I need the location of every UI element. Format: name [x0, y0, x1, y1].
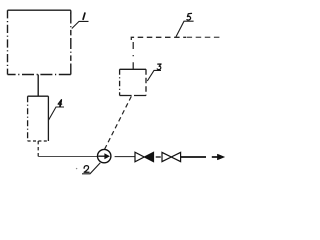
vessel 4 bottom edge	[28, 140, 49, 142]
speckle artifact	[76, 168, 77, 169]
wire: tank 1 to vessel 4	[37, 75, 39, 97]
dashed control line: box 3 to pump 2	[105, 96, 132, 149]
suction line to pump 2	[38, 156, 97, 158]
tank 1 top edge	[8, 9, 71, 11]
valve V2 (open)	[162, 152, 181, 161]
label 3 leader	[147, 64, 161, 81]
pump 2 (circle with arrow)	[98, 149, 111, 162]
signal line 5 faded right part	[187, 36, 221, 38]
tank 1 right edge	[70, 10, 72, 74]
controller 3 (small dash-dot square)	[120, 69, 146, 95]
outlet flow arrow	[212, 154, 225, 160]
outlet line	[181, 156, 206, 158]
tank 1 top-right corner	[69, 10, 72, 14]
dash-dot wire: controller 3 up to signal line 5	[132, 37, 134, 69]
controller 3 top edge	[120, 68, 146, 70]
vessel 4 (small rectangle)	[28, 96, 49, 141]
tank/enclosure 1 (large dash-dot rectangle)	[8, 10, 71, 74]
signal line 5 (dashed horizontal)	[131, 37, 186, 40]
label 2 leader	[82, 163, 100, 174]
wire: pump 2 to valve V1	[115, 156, 136, 158]
vessel 4 right edge	[47, 96, 49, 141]
valve V1 (left half open, right half filled)	[135, 152, 154, 162]
dashed wire: vessel 4 to suction line	[37, 141, 39, 157]
controller 3 left edge	[119, 69, 121, 95]
label 1 leader	[72, 13, 89, 28]
controller 3 bottom edge	[120, 95, 146, 97]
tank 1 left edge	[7, 10, 9, 74]
controller 3 right edge	[145, 69, 147, 95]
tank 1 bottom edge	[8, 74, 71, 76]
wire: valve V1 to valve V2	[156, 156, 161, 158]
vessel 4 left edge	[27, 96, 29, 141]
vessel 4 top edge	[28, 95, 49, 97]
label 5 leader	[176, 13, 194, 36]
label 4 leader	[49, 100, 64, 120]
